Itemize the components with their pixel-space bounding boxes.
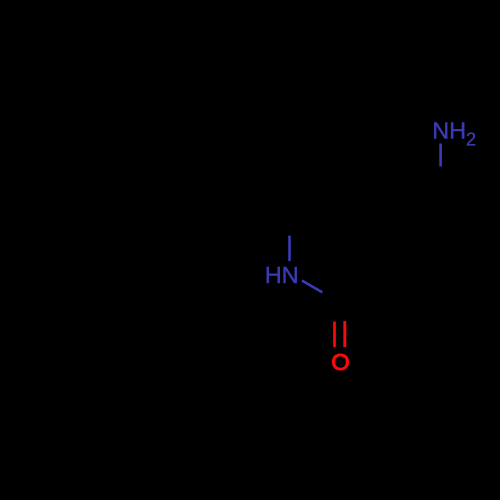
svg-text:NH: NH	[432, 117, 466, 143]
node N1 (ring nitrogen) : label HN	[265, 262, 299, 288]
wire: bond N2-C (half-bond, N colored)	[439, 144, 442, 167]
svg-text:2: 2	[466, 130, 476, 150]
svg-text:HN: HN	[265, 262, 299, 288]
wire: bond N1-C1 diagonal (half-bond, N colored)	[302, 281, 322, 293]
wire: double bond C1=O line 2 (half-bond, O colored)	[343, 321, 346, 347]
wire: double bond C1=O line 1 (half-bond, O colored)	[333, 322, 336, 348]
node N2 (amine nitrogen) : label NH2	[432, 117, 476, 149]
svg-text:O: O	[331, 349, 349, 375]
node O (carbonyl oxygen) : label O	[331, 349, 349, 375]
wire: bond C-N1 vertical (half-bond, N colored)	[288, 236, 291, 261]
